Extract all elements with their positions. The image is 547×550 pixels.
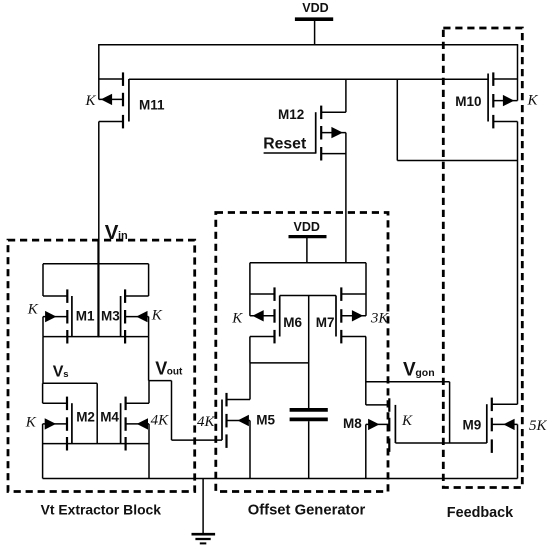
transistor M3 (NMOS K) [121, 264, 149, 344]
transistor M9 (NMOS 5K) [487, 398, 518, 479]
wire ground rail [43, 478, 518, 480]
label K (M11 size) [84, 93, 96, 109]
wire VDD stem (top) [314, 19, 316, 45]
wire feedback node to gate rail (vertical) [396, 79, 398, 160]
svg-text:Feedback: Feedback [447, 505, 514, 521]
wire Vout route to M5 gate [172, 439, 223, 441]
label Reset [263, 135, 307, 152]
transistor M8 (NMOS K) [366, 337, 396, 479]
svg-text:M6: M6 [283, 315, 302, 330]
node Vin label [105, 221, 128, 244]
label 3K (M7 size) [370, 311, 390, 327]
wire M3 source down to Vout [148, 337, 150, 381]
power symbol VDD bar (top) [295, 17, 333, 21]
wire M6-M7 gate link [280, 295, 336, 297]
label K (M2 size) [25, 415, 37, 431]
wire offset VDD rail [250, 262, 366, 264]
wire M1/M3 common source-gate line [43, 336, 149, 338]
node Vgon label [403, 360, 435, 381]
power symbol VDD bar (offset) [289, 235, 327, 238]
wire M12 drain up to gate rail [345, 79, 347, 112]
label M4 [100, 410, 119, 425]
wire M2/M4 common source-gate line [43, 443, 149, 445]
svg-text:gon: gon [415, 367, 434, 379]
svg-text:VDD: VDD [293, 220, 319, 234]
label M2 [76, 410, 95, 425]
node Vs label [53, 364, 69, 381]
label M1 [76, 309, 95, 324]
svg-text:K: K [401, 413, 413, 429]
svg-text:M3: M3 [101, 309, 120, 324]
wire M12 source down to offset VDD rail [345, 133, 347, 263]
svg-text:M11: M11 [139, 98, 165, 113]
label Offset Generator title [248, 503, 366, 519]
label 4K (M4 size) [151, 412, 170, 428]
wire Vs down to M2/M4 gate line [96, 383, 98, 443]
svg-text:K: K [84, 93, 96, 109]
svg-text:M1: M1 [76, 309, 95, 324]
svg-text:V: V [105, 221, 119, 244]
svg-text:Offset Generator: Offset Generator [248, 503, 366, 519]
label M5 [256, 413, 275, 428]
transistor M4 (NMOS 4K) [121, 381, 149, 479]
wire Reset input to M12 gate [264, 152, 316, 154]
label K (M8 size) [401, 413, 413, 429]
wire M8-M9 gate link [395, 442, 486, 444]
wire Vout horizontal [149, 380, 172, 382]
transistor M1 (NMOS K) [43, 264, 72, 344]
wire Vin down to source-gate line [97, 240, 99, 337]
svg-text:V: V [403, 360, 416, 381]
label M12 [278, 107, 304, 122]
svg-text:V: V [53, 364, 64, 381]
label M6 [283, 315, 302, 330]
svg-text:3K: 3K [370, 311, 390, 327]
svg-text:4K: 4K [197, 414, 216, 430]
svg-text:out: out [167, 367, 183, 378]
svg-text:4K: 4K [151, 412, 170, 428]
svg-text:Reset: Reset [263, 135, 307, 152]
label 5K (M9 size) [529, 418, 547, 434]
wire ground stem [202, 479, 204, 535]
ground [192, 534, 216, 543]
wire M10 drain down to M9 drain [517, 122, 519, 405]
label M7 [316, 315, 335, 330]
node Vout label [155, 358, 183, 378]
wire capacitor bottom to ground rail [308, 421, 310, 478]
transistor M6 (PMOS K) [250, 263, 280, 344]
label M3 [101, 309, 120, 324]
wire Vgon horizontal [366, 381, 450, 383]
dashed box Vt Extractor Block [8, 240, 195, 491]
transistor M7 (PMOS 3K) [336, 263, 366, 344]
svg-text:M5: M5 [256, 413, 275, 428]
dashed box Feedback [443, 28, 522, 488]
svg-text:K: K [25, 415, 37, 431]
wire Vout route down [171, 381, 173, 441]
svg-text:M10: M10 [455, 94, 481, 109]
wire M6/M5 drain junction to gate node [250, 362, 309, 364]
label K (M10 size) [526, 93, 538, 109]
label M9 [463, 418, 482, 433]
svg-text:V: V [155, 358, 167, 378]
power label VDD (top) [302, 1, 328, 15]
wire feedback node to gate rail (horizontal) [397, 160, 517, 162]
wire gate rail (M11-M10 gates) [129, 78, 488, 80]
label K (M3 size) [151, 308, 163, 324]
svg-text:M4: M4 [100, 410, 119, 425]
transistor M5 (NMOS 4K) [222, 363, 250, 479]
label 4K (M5 size) [197, 414, 216, 430]
wire Vt block top rail [43, 263, 149, 265]
svg-text:5K: 5K [529, 418, 547, 434]
svg-text:Vt Extractor Block: Vt Extractor Block [41, 502, 162, 518]
wire top VDD rail [98, 44, 518, 46]
label M10 [455, 94, 481, 109]
label M11 [139, 98, 165, 113]
capacitor C1 (offset hold cap) [290, 410, 328, 420]
transistor M2 (NMOS K) [43, 383, 72, 478]
power label VDD (offset) [293, 220, 319, 234]
label K (M6 size) [231, 311, 243, 327]
svg-text:K: K [27, 302, 39, 318]
transistor M10 (PMOS K) [488, 45, 517, 129]
transistor M11 (PMOS K) [99, 45, 129, 129]
svg-text:K: K [526, 93, 538, 109]
label Feedback title [447, 505, 514, 521]
label Vt Extractor Block title [41, 502, 162, 518]
svg-text:K: K [231, 311, 243, 327]
wire M1 source down to Vs [42, 337, 44, 384]
svg-text:M7: M7 [316, 315, 335, 330]
svg-text:K: K [151, 308, 163, 324]
svg-text:s: s [63, 369, 68, 380]
svg-text:M12: M12 [278, 107, 304, 122]
dashed box Offset Generator [216, 213, 388, 492]
wire VDD stem (offset) [306, 237, 308, 264]
wire Vs horizontal [43, 382, 98, 384]
wire M6 drain down [249, 337, 251, 363]
label M8 [343, 416, 362, 431]
wire Vgon down to gate link [449, 382, 451, 443]
wire M11 drain to Vin node [98, 122, 100, 338]
wire gate node down to capacitor [308, 296, 310, 409]
svg-text:VDD: VDD [302, 1, 328, 15]
svg-text:M9: M9 [463, 418, 482, 433]
svg-text:M2: M2 [76, 410, 95, 425]
svg-text:in: in [118, 230, 128, 242]
svg-text:M8: M8 [343, 416, 362, 431]
label K (M1 size) [27, 302, 39, 318]
transistor M12 (reset PMOS) [316, 106, 346, 161]
